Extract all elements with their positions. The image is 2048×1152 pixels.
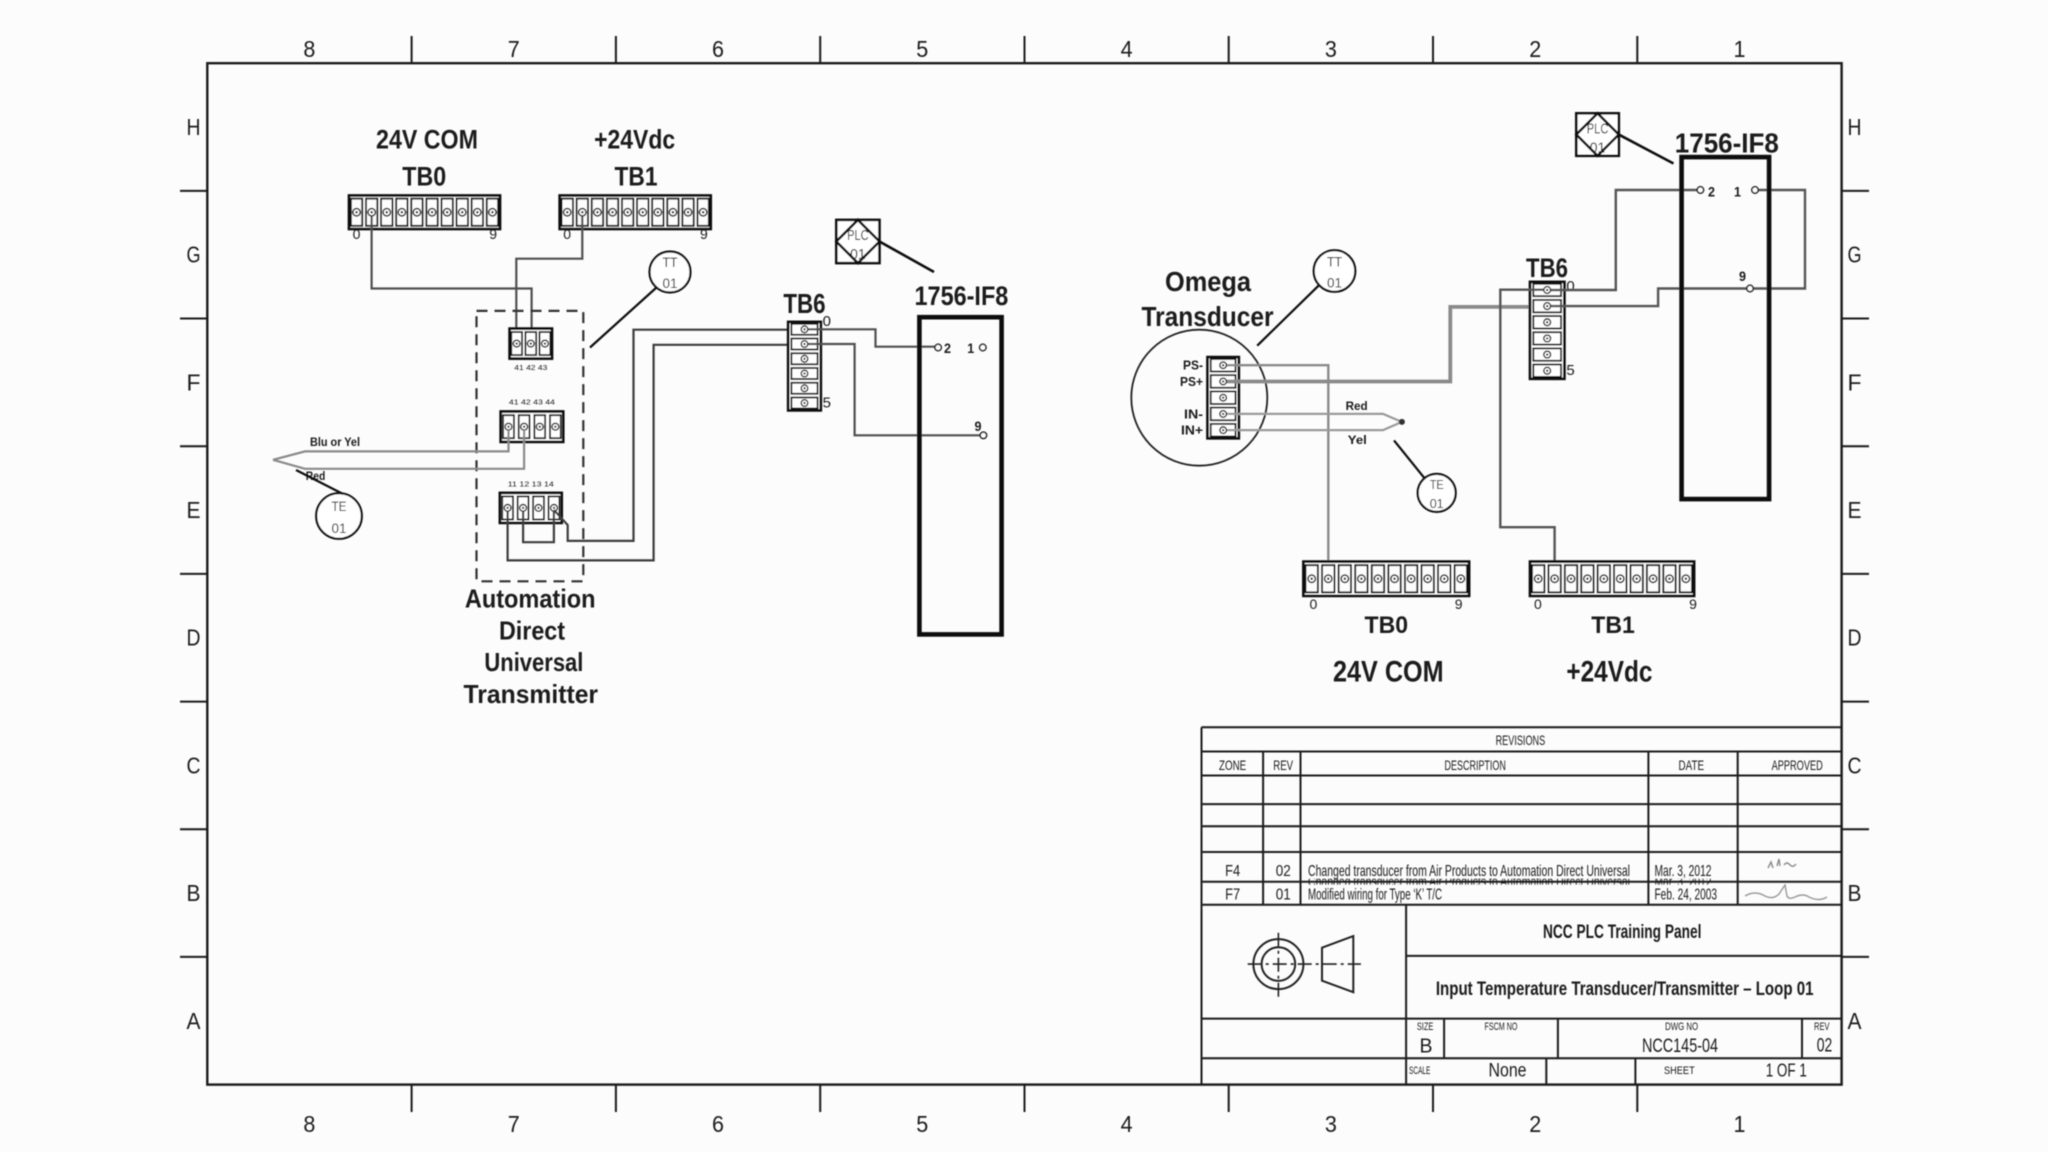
svg-text:24V COM: 24V COM	[1333, 656, 1444, 689]
svg-text:TT: TT	[1327, 254, 1342, 270]
svg-text:Feb. 24, 2003: Feb. 24, 2003	[1655, 887, 1718, 904]
svg-text:TB1: TB1	[615, 162, 658, 192]
svg-text:3: 3	[1325, 36, 1337, 62]
svg-text:Input Temperature Transducer/T: Input Temperature Transducer/Transmitter…	[1436, 978, 1814, 1000]
svg-text:A: A	[1848, 1008, 1863, 1034]
svg-text:9: 9	[1455, 596, 1463, 612]
svg-text:01: 01	[1327, 275, 1342, 291]
svg-text:REV: REV	[1273, 757, 1293, 773]
svg-text:01: 01	[663, 275, 678, 291]
svg-text:PS-: PS-	[1183, 359, 1203, 373]
svg-text:8: 8	[303, 36, 315, 62]
svg-text:5: 5	[916, 1111, 928, 1137]
svg-text:PS+: PS+	[1180, 375, 1203, 389]
svg-text:Mar. 3, 2012: Mar. 3, 2012	[1655, 863, 1712, 880]
svg-text:0: 0	[1566, 278, 1574, 295]
svg-text:2: 2	[944, 340, 951, 356]
svg-text:01: 01	[1430, 496, 1444, 511]
svg-text:PLC: PLC	[1587, 120, 1609, 137]
svg-text:SIZE: SIZE	[1417, 1021, 1434, 1033]
svg-text:REV: REV	[1814, 1021, 1830, 1033]
svg-text:TB0: TB0	[402, 162, 446, 192]
svg-text:9: 9	[975, 418, 982, 434]
svg-text:01: 01	[332, 520, 347, 536]
svg-text:4: 4	[1121, 36, 1133, 62]
svg-text:Blu or Yel: Blu or Yel	[310, 435, 360, 449]
svg-text:11 12 13 14: 11 12 13 14	[508, 480, 554, 489]
svg-text:9: 9	[700, 226, 708, 242]
svg-text:C: C	[1848, 752, 1862, 778]
svg-text:6: 6	[712, 36, 724, 62]
svg-text:F: F	[187, 369, 201, 395]
svg-text:B: B	[1420, 1036, 1433, 1058]
svg-text:C: C	[187, 752, 201, 778]
svg-text:ZONE: ZONE	[1219, 757, 1246, 773]
svg-text:H: H	[1848, 114, 1862, 140]
svg-text:B: B	[187, 880, 201, 906]
svg-text:5: 5	[823, 395, 831, 412]
svg-text:4: 4	[1121, 1111, 1133, 1137]
svg-text:TT: TT	[663, 254, 678, 270]
svg-text:1: 1	[967, 340, 974, 356]
svg-text:NCC145-04: NCC145-04	[1642, 1036, 1718, 1057]
svg-text:IN+: IN+	[1181, 424, 1203, 438]
svg-text:G: G	[1848, 242, 1862, 268]
svg-text:0: 0	[563, 226, 571, 242]
svg-text:E: E	[187, 497, 201, 523]
svg-text:TB1: TB1	[1591, 612, 1635, 639]
svg-text:Automation: Automation	[465, 584, 596, 614]
svg-text:F4: F4	[1225, 863, 1240, 880]
svg-text:TE: TE	[332, 498, 347, 514]
svg-text:TE: TE	[1430, 477, 1444, 492]
svg-text:1: 1	[1734, 36, 1746, 62]
svg-text:SHEET: SHEET	[1664, 1065, 1695, 1077]
svg-text:2: 2	[1708, 184, 1715, 200]
svg-text:24V COM: 24V COM	[376, 125, 478, 155]
svg-text:Modified wiring for Type ‘K’ T: Modified wiring for Type ‘K’ T/C	[1308, 887, 1442, 904]
svg-text:0: 0	[1534, 596, 1542, 612]
svg-text:5: 5	[916, 36, 928, 62]
svg-text:E: E	[1848, 497, 1862, 523]
svg-text:B: B	[1848, 880, 1862, 906]
svg-text:Yel: Yel	[1348, 433, 1367, 447]
svg-text:1756-IF8: 1756-IF8	[1675, 128, 1779, 159]
svg-text:1756-IF8: 1756-IF8	[915, 281, 1009, 311]
svg-text:0: 0	[1310, 596, 1318, 612]
svg-text:3: 3	[1325, 1111, 1337, 1137]
svg-text:7: 7	[508, 36, 520, 62]
svg-text:9: 9	[1689, 596, 1697, 612]
svg-text:41 42 43: 41 42 43	[514, 363, 547, 372]
svg-text:Omega: Omega	[1165, 266, 1251, 297]
svg-text:1 OF 1: 1 OF 1	[1766, 1061, 1807, 1081]
svg-text:0: 0	[353, 226, 361, 242]
svg-text:PLC: PLC	[847, 227, 869, 244]
svg-text:+24Vdc: +24Vdc	[594, 125, 675, 155]
svg-text:F: F	[1848, 369, 1862, 395]
svg-text:6: 6	[712, 1111, 724, 1137]
svg-text:TB0: TB0	[1365, 612, 1409, 639]
svg-text:APPROVED: APPROVED	[1772, 757, 1823, 773]
svg-text:1: 1	[1734, 184, 1741, 200]
svg-text:TB6: TB6	[783, 288, 825, 319]
svg-text:D: D	[187, 625, 201, 651]
svg-text:H: H	[187, 114, 201, 140]
svg-text:01: 01	[850, 246, 866, 263]
svg-text:DATE: DATE	[1679, 757, 1705, 773]
svg-text:5: 5	[1566, 362, 1574, 379]
svg-text:9: 9	[489, 226, 497, 242]
svg-text:FSCM NO: FSCM NO	[1485, 1021, 1518, 1033]
svg-text:D: D	[1848, 625, 1862, 651]
svg-text:01: 01	[1590, 139, 1606, 156]
svg-text:NCC PLC Training Panel: NCC PLC Training Panel	[1543, 921, 1701, 943]
svg-text:02: 02	[1276, 863, 1291, 880]
svg-text:Transducer: Transducer	[1142, 301, 1274, 332]
svg-text:02: 02	[1817, 1036, 1833, 1057]
svg-text:Changed transducer from Air Pr: Changed transducer from Air Products to …	[1308, 863, 1630, 880]
svg-text:01: 01	[1276, 887, 1291, 904]
svg-text:9: 9	[1739, 268, 1746, 284]
svg-text:Transmitter: Transmitter	[464, 679, 599, 709]
svg-text:Universal: Universal	[484, 647, 583, 677]
svg-text:SCALE: SCALE	[1409, 1065, 1430, 1077]
svg-text:Direct: Direct	[499, 616, 565, 646]
svg-text:IN-: IN-	[1184, 407, 1203, 421]
svg-text:41 42 43 44: 41 42 43 44	[509, 398, 555, 407]
svg-text:2: 2	[1529, 1111, 1541, 1137]
svg-text:F7: F7	[1225, 887, 1240, 904]
svg-text:7: 7	[508, 1111, 520, 1137]
svg-text:0: 0	[823, 313, 831, 330]
svg-text:1: 1	[1734, 1111, 1746, 1137]
svg-text:None: None	[1489, 1061, 1527, 1082]
svg-text:TB6: TB6	[1526, 253, 1568, 283]
svg-text:A: A	[187, 1008, 202, 1034]
svg-text:DESCRIPTION: DESCRIPTION	[1445, 757, 1506, 773]
svg-text:DWG NO: DWG NO	[1665, 1021, 1698, 1033]
svg-text:G: G	[187, 242, 201, 268]
svg-text:+24Vdc: +24Vdc	[1566, 656, 1652, 689]
svg-text:8: 8	[303, 1111, 315, 1137]
svg-text:REVISIONS: REVISIONS	[1496, 732, 1546, 748]
svg-text:Red: Red	[1346, 399, 1368, 413]
svg-text:2: 2	[1529, 36, 1541, 62]
